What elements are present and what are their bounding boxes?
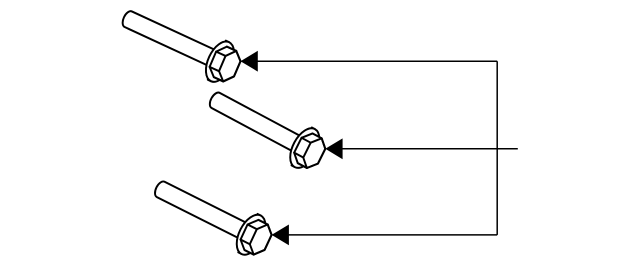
leader line from arrow 1 — [257, 60, 497, 62]
arrowhead pointing to bolt 2 — [325, 138, 342, 159]
bolt 2 — [207, 92, 327, 173]
bolt 3 — [154, 181, 272, 259]
leader line from arrow 3 — [288, 234, 497, 236]
vertical joiner line connecting leaders 1 and 3 — [496, 61, 498, 235]
arrowhead pointing to bolt 1 — [241, 51, 258, 72]
leader line from arrow 2 — [342, 148, 518, 150]
arrowhead pointing to bolt 3 — [272, 225, 289, 246]
bolt 1 — [122, 9, 241, 88]
